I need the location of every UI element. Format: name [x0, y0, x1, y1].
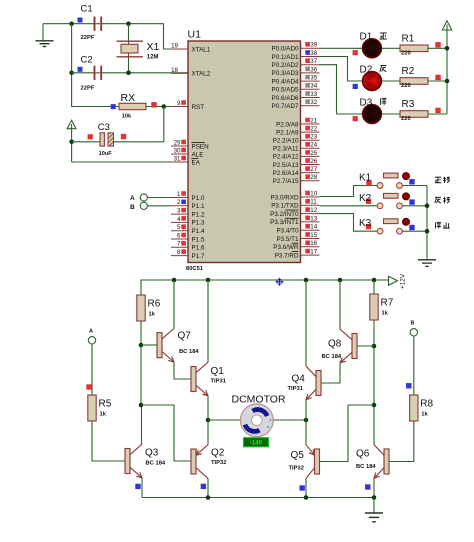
svg-text:10k: 10k [122, 113, 132, 119]
diode D1 LED [360, 32, 387, 58]
svg-text:P3.6/WR: P3.6/WR [273, 244, 299, 251]
svg-text:B: B [130, 204, 135, 211]
wire Q6 emitter to bottom rail [373, 478, 375, 497]
red marker on A column [86, 384, 91, 389]
svg-text:R8: R8 [420, 399, 433, 410]
wire R3 to +12V rail [428, 113, 447, 115]
svg-text:19: 19 [171, 42, 178, 49]
capacitor C2 [78, 55, 102, 92]
crystal X1 12M [117, 41, 160, 61]
pin 28 P2.7/A15 [273, 174, 320, 185]
motor rpm display [244, 438, 269, 447]
svg-text:P3.2/INT0: P3.2/INT0 [270, 211, 299, 218]
wire C1 to XTAL1 [102, 24, 188, 49]
svg-text:33: 33 [310, 91, 317, 98]
wire C2 row to XTAL2 [72, 72, 94, 74]
label K2 reverse (fan zhuan) [435, 197, 450, 203]
blue marker Q5 collector [300, 485, 305, 490]
pin 15 P3.5/T1 [276, 232, 319, 243]
svg-text:24: 24 [310, 142, 317, 149]
node R6/Q7 base [139, 343, 144, 348]
svg-text:34: 34 [310, 83, 317, 90]
pin 9 RST [171, 100, 204, 111]
svg-text:P0.4/AD4: P0.4/AD4 [272, 78, 299, 85]
svg-text:EA: EA [192, 159, 201, 166]
blue marker Q3 emitter [135, 484, 140, 489]
svg-text:Q8: Q8 [328, 338, 342, 349]
svg-text:P2.1/A9: P2.1/A9 [276, 129, 299, 136]
transistor Q2 TIP32 (PNP) [191, 445, 208, 479]
pin 5 P1.4 [171, 224, 205, 235]
pin 12 P3.2/INT0 [270, 207, 319, 218]
svg-text:BC 184: BC 184 [356, 464, 376, 470]
wire K2 to rail [402, 205, 427, 207]
node rail/Q7 collector [172, 278, 177, 283]
pin 1 P1.0 [171, 191, 205, 202]
motor DCMOTOR [232, 394, 286, 447]
svg-text:5: 5 [177, 224, 181, 231]
wire motor right [273, 419, 306, 421]
node X1 top tap [126, 21, 131, 26]
pin 34 P0.5/AD5 [272, 83, 320, 94]
svg-text:4: 4 [177, 216, 181, 223]
wire D3 to R3 [382, 113, 400, 115]
svg-text:2: 2 [177, 199, 181, 206]
wire Q3 collector up [141, 405, 143, 444]
pin 22 P2.1/A9 [276, 126, 319, 137]
svg-text:D2: D2 [360, 64, 373, 75]
svg-text:R1: R1 [402, 34, 415, 45]
svg-text:P2.0/A8: P2.0/A8 [276, 121, 299, 128]
node RST/C3 junction [162, 104, 167, 109]
wire B to pin2 [147, 205, 171, 207]
wire Q3 emitter to bottom rail [141, 478, 143, 498]
svg-text:22PF: 22PF [81, 35, 95, 41]
svg-text:7: 7 [177, 241, 181, 248]
pin 17 P3.7/RD [275, 249, 320, 260]
wire D2 to R2 [382, 80, 400, 82]
pin 6 P1.5 [171, 232, 205, 243]
wire X1 top stem [128, 24, 130, 41]
wire P0.1 to D2 [320, 57, 363, 82]
pin 4 P1.3 [171, 216, 205, 227]
resistor R5 1k [88, 395, 112, 421]
switch K3 [359, 218, 415, 234]
svg-text:R2: R2 [402, 66, 415, 77]
svg-text:ALE: ALE [192, 151, 204, 158]
svg-text:B: B [411, 321, 415, 327]
svg-text:P1.2: P1.2 [192, 211, 205, 218]
node ground/C1 junction [69, 21, 74, 26]
svg-text:P3.7/RD: P3.7/RD [275, 252, 299, 259]
resistor R7 1k [370, 294, 394, 320]
pin 26 P2.5/A13 [273, 158, 320, 169]
svg-text:Q2: Q2 [211, 448, 225, 459]
svg-text:D1: D1 [360, 32, 373, 43]
node rail/Q1 collector [206, 278, 211, 283]
red marker before D1 [353, 50, 358, 55]
red marker before D3 [353, 116, 358, 121]
svg-text:C1: C1 [81, 4, 93, 15]
svg-text:P3.3/INT1: P3.3/INT1 [270, 219, 299, 226]
transistor Q1 TIP31 [191, 362, 208, 396]
wire ground row to C1 [43, 23, 94, 25]
svg-text:BC 184: BC 184 [146, 460, 166, 466]
svg-text:XTAL1: XTAL1 [192, 46, 211, 53]
wire P3.0 to K1 [320, 186, 378, 197]
power +12V arrow right [389, 273, 407, 289]
wire Q2 emitter up to motor node [207, 420, 209, 445]
transistor Q5 TIP32 (PNP mirrored) [306, 445, 320, 479]
wire P3.1 to K2 [320, 205, 378, 207]
pin 32 P0.7/AD7 [272, 99, 320, 110]
wire VCC stem down to EA row [71, 129, 73, 162]
svg-text:P0.2/AD2: P0.2/AD2 [272, 62, 299, 69]
wire button ground rail [426, 186, 428, 260]
wire Q7 base [141, 344, 157, 346]
pin 10 P3.0/RXD [271, 190, 320, 201]
svg-text:38: 38 [310, 50, 317, 57]
svg-text:3: 3 [177, 208, 181, 215]
pin 8 P1.7 [171, 249, 205, 260]
node B terminal to P1.1 [130, 202, 147, 211]
svg-text:BC 184: BC 184 [322, 354, 342, 360]
node rail/ground [372, 495, 377, 500]
node rail/R1 [445, 46, 450, 51]
wire Q8 base [357, 345, 374, 347]
wire A column / R5 [91, 344, 93, 395]
label K3 stop (ting zhi) [436, 222, 450, 228]
wire Q4 collector to rail [305, 280, 307, 366]
svg-text:P2.3/A11: P2.3/A11 [273, 146, 299, 153]
svg-text:17: 17 [310, 249, 317, 256]
svg-text:P3.1/TXD: P3.1/TXD [271, 203, 299, 210]
pin 14 P3.4/T0 [276, 224, 319, 235]
node motor right [304, 418, 309, 423]
pin 30 ALE [171, 147, 203, 158]
svg-text:31: 31 [174, 155, 181, 162]
wire R2 to +12V rail [428, 80, 447, 82]
svg-text:X1: X1 [147, 41, 160, 53]
svg-text:10: 10 [310, 190, 317, 197]
node C3 left junction [69, 140, 74, 145]
node rail/K3 [425, 229, 430, 234]
wire Q5 base route [320, 405, 375, 462]
pin 2 P1.1 [171, 199, 205, 210]
svg-text:A: A [89, 329, 93, 335]
svg-text:RX: RX [121, 92, 136, 104]
wire C3 row left [72, 141, 100, 143]
svg-text:Q3: Q3 [145, 448, 159, 459]
node rail/Q5 collector [304, 495, 309, 500]
svg-text:P1.4: P1.4 [192, 228, 205, 235]
wire R8 to Q6 base [389, 421, 414, 462]
transistor Q8 BC184 (mirrored) [340, 329, 357, 363]
svg-text:Q6: Q6 [356, 449, 370, 460]
wire Q1 collector to rail [207, 280, 209, 362]
node R7/Q8 base [372, 344, 377, 349]
wire Q2 base route [141, 405, 191, 461]
svg-text:P3.5/T1: P3.5/T1 [276, 236, 299, 243]
wire P0.0 to D1 [320, 47, 363, 49]
origin marker (blue cross) [276, 278, 284, 286]
wire ground stem [373, 498, 375, 513]
pin 27 P2.6/A14 [273, 166, 320, 177]
node rail/R7 [372, 278, 377, 283]
node A terminal to P1.0 [130, 194, 147, 202]
svg-text:11: 11 [310, 199, 317, 206]
svg-text:21: 21 [310, 117, 317, 124]
pin 33 P0.6/AD6 [272, 91, 320, 102]
svg-text:22: 22 [310, 126, 317, 133]
svg-text:13: 13 [310, 215, 317, 222]
red marker right of R1 [435, 42, 440, 47]
svg-text:P3.0/RXD: P3.0/RXD [271, 194, 299, 201]
wire Q1 emitter to motor node [207, 396, 209, 420]
power +12V arrow top right [442, 21, 451, 30]
node rail/Q8 collector [338, 278, 343, 283]
svg-text:32: 32 [310, 99, 317, 106]
svg-text:K2: K2 [359, 193, 372, 204]
wire C3 riser to RST row [163, 107, 165, 143]
node rail/R2 [445, 79, 450, 84]
wire +12V rail [446, 30, 448, 114]
svg-text:TIP32: TIP32 [289, 466, 304, 472]
svg-text:K1: K1 [359, 173, 372, 184]
wire P0.2 to D3 [320, 65, 363, 114]
wire Q8 collector to rail [339, 280, 341, 329]
pin 16 P3.6/WR [273, 240, 319, 251]
node Q3 collector / Q2 base [139, 403, 144, 408]
svg-text:C3: C3 [98, 122, 110, 133]
ground GND2 below buttons [418, 260, 436, 267]
pin 29 PSEN [171, 139, 209, 150]
svg-text:K3: K3 [359, 218, 372, 229]
svg-text:1k: 1k [382, 311, 389, 317]
svg-text:P2.5/A13: P2.5/A13 [273, 162, 299, 169]
pin 21 P2.0/A8 [276, 117, 319, 128]
svg-text:14: 14 [310, 224, 317, 231]
svg-text:6: 6 [177, 232, 181, 239]
wire Q2 collector to bottom rail [207, 478, 209, 497]
wire R1 to +12V rail [428, 47, 447, 49]
svg-text:P0.5/AD5: P0.5/AD5 [272, 87, 299, 94]
svg-text:26: 26 [310, 158, 317, 165]
node Q6 collector / Q5 base / R7 [372, 403, 377, 408]
svg-text:P0.3/AD3: P0.3/AD3 [272, 70, 299, 77]
pin 38 P0.1/AD1 [272, 50, 320, 61]
wire Q5 collector to bottom rail [305, 478, 307, 497]
svg-text:39: 39 [310, 42, 317, 49]
switch K2 [359, 193, 415, 209]
pin 19 XTAL1 [171, 42, 211, 53]
pin 35 P0.4/AD4 [272, 75, 320, 86]
svg-text:Q1: Q1 [211, 366, 225, 377]
resistor RX 10k [111, 92, 146, 120]
svg-text:Q5: Q5 [291, 450, 305, 461]
svg-text:C2: C2 [81, 55, 93, 66]
svg-text:R3: R3 [402, 99, 415, 110]
wire R7 bottom column [373, 320, 375, 405]
svg-text:8: 8 [177, 249, 181, 256]
svg-text:23: 23 [310, 134, 317, 141]
svg-text:XTAL2: XTAL2 [192, 71, 211, 78]
wire Q7 emitter to Q1 base [174, 362, 191, 379]
svg-text:80C51: 80C51 [186, 266, 204, 272]
svg-text:36: 36 [310, 66, 317, 73]
ground GND1 top-left [36, 24, 54, 47]
node motor left [206, 418, 211, 423]
transistor Q7 BC184 [157, 328, 174, 362]
svg-text:12M: 12M [147, 54, 159, 60]
pin 25 P2.4/A12 [273, 150, 320, 161]
wire A to pin1 [147, 197, 171, 199]
pin 11 P3.1/TXD [271, 199, 319, 210]
resistor R1 220 [400, 34, 428, 57]
blue marker Q2 collector [201, 484, 206, 489]
node B bottom terminal [410, 321, 417, 336]
capacitor C1 [78, 4, 102, 42]
svg-text:P2.2/A10: P2.2/A10 [273, 138, 299, 145]
resistor R3 220 [400, 99, 428, 122]
svg-text:220: 220 [401, 51, 411, 57]
svg-text:1k: 1k [421, 412, 428, 418]
wire Q4 emitter to motor node [305, 400, 307, 420]
wire D1 to R1 [382, 47, 400, 49]
node A bottom terminal [88, 329, 95, 344]
svg-text:R5: R5 [99, 399, 112, 410]
red marker right of R3 [435, 108, 440, 113]
svg-text:37: 37 [310, 58, 317, 65]
svg-text:16: 16 [310, 240, 317, 247]
svg-text:15: 15 [310, 232, 317, 239]
wire ground column C1-C2-RX [72, 24, 119, 107]
node C2 left junction [69, 71, 74, 76]
wire K1 to rail [402, 185, 427, 187]
node rail/Q4 collector [304, 278, 309, 283]
switch K1 [359, 173, 415, 189]
node rail/K2 [425, 204, 430, 209]
wire R6 bottom column [140, 321, 142, 405]
ground GND3 H-bridge [365, 513, 383, 522]
wire C3 right [114, 141, 164, 143]
transistor Q3 BC184 [125, 444, 142, 478]
pin 39 P0.0/AD0 [272, 42, 320, 53]
svg-text:P0.6/AD6: P0.6/AD6 [272, 95, 299, 102]
wire Q5 emitter up to motor node [305, 420, 307, 445]
pin 7 P1.6 [171, 241, 205, 252]
svg-text:Q7: Q7 [178, 331, 192, 342]
pin 13 P3.3/INT1 [270, 215, 319, 226]
pin 24 P2.3/A11 [273, 142, 319, 153]
pin 31 EA [171, 155, 201, 166]
red marker K1 [366, 180, 371, 185]
svg-text:25: 25 [310, 150, 317, 157]
svg-text:27: 27 [310, 166, 317, 173]
pin 23 P2.2/A10 [273, 134, 320, 145]
power +V arrow above C3 [67, 120, 76, 128]
wire R7 column top [373, 280, 375, 294]
svg-text:-140: -140 [250, 441, 263, 447]
svg-text:P2.7/A15: P2.7/A15 [273, 178, 299, 185]
wire motor left [208, 419, 241, 421]
wire B column to R8 [413, 336, 415, 395]
svg-text:P1.6: P1.6 [192, 245, 205, 252]
wire Q6 collector up [373, 405, 375, 445]
resistor R2 220 [400, 66, 428, 89]
svg-text:220: 220 [401, 83, 411, 89]
red marker right of RX [151, 102, 156, 107]
svg-text:1k: 1k [100, 412, 107, 418]
svg-text:P1.5: P1.5 [192, 236, 205, 243]
red marker K3 [366, 224, 371, 229]
wire RX right to RST [146, 106, 188, 108]
transistor Q4 TIP31 (mirrored) [306, 366, 321, 400]
svg-text:D3: D3 [360, 97, 373, 108]
svg-text:29: 29 [174, 139, 181, 146]
transistor Q6 BC184 (mirrored) [374, 445, 389, 479]
wire K3 to rail [402, 230, 427, 232]
svg-text:22PF: 22PF [81, 85, 95, 91]
svg-text:A: A [130, 195, 135, 202]
diode D3 LED [360, 97, 387, 123]
svg-text:PSEN: PSEN [192, 143, 210, 150]
svg-text:R6: R6 [148, 299, 161, 310]
svg-text:P1.7: P1.7 [192, 253, 205, 260]
svg-text:12: 12 [310, 207, 317, 214]
svg-text:18: 18 [171, 67, 178, 74]
wire R5 to Q3 base [92, 421, 125, 461]
blue marker Q6 emitter [365, 484, 370, 489]
node rail/Q2 collector [206, 495, 211, 500]
wire bottom rail [142, 497, 374, 499]
svg-text:P1.0: P1.0 [192, 195, 205, 202]
pin 37 P0.2/AD2 [272, 58, 320, 69]
wire Q8 emitter to Q4 base [321, 363, 340, 383]
svg-text:9: 9 [177, 100, 181, 107]
node X1 bottom tap [126, 71, 131, 76]
pin 36 P0.3/AD3 [272, 66, 320, 77]
svg-text:220: 220 [401, 116, 411, 122]
svg-text:1k: 1k [149, 312, 156, 318]
svg-text:1: 1 [177, 191, 181, 198]
svg-text:Q4: Q4 [292, 374, 306, 385]
blue marker before D2 [353, 84, 358, 89]
resistor R6 1k [137, 295, 161, 321]
svg-text:30: 30 [174, 147, 181, 154]
svg-text:P2.4/A12: P2.4/A12 [273, 154, 299, 161]
svg-text:TIP31: TIP31 [288, 386, 304, 392]
blue marker on B column [406, 383, 411, 388]
pin 3 P1.2 [171, 208, 205, 219]
svg-text:P0.1/AD1: P0.1/AD1 [272, 54, 299, 61]
svg-text:R7: R7 [381, 298, 394, 309]
wire H-bridge top rail [141, 280, 389, 295]
svg-text:10uF: 10uF [99, 151, 113, 157]
svg-text:TIP32: TIP32 [211, 460, 226, 466]
svg-text:P1.1: P1.1 [192, 203, 205, 210]
svg-text:+12V: +12V [400, 273, 407, 289]
svg-text:U1: U1 [188, 29, 202, 41]
svg-text:RST: RST [192, 104, 205, 111]
wire P3.2 to K3 [320, 214, 378, 232]
label K1 forward (zheng zhuan) [435, 177, 450, 183]
red marker K2 [366, 199, 371, 204]
wire X1 bottom stem [128, 57, 130, 73]
svg-text:BC 184: BC 184 [179, 349, 199, 355]
svg-text:P0.7/AD7: P0.7/AD7 [272, 103, 299, 110]
wire EA row [72, 161, 188, 163]
